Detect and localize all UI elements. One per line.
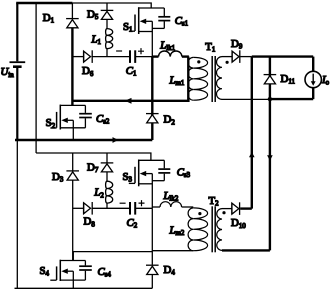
svg-text:S1: S1: [123, 21, 133, 34]
transformer T2 core: [212, 206, 215, 252]
transformer T1 secondary winding: [216, 57, 222, 100]
node dot T1 secondary polarity: [226, 61, 229, 64]
capacitor Cs4: [79, 261, 92, 281]
svg-text:D7: D7: [87, 161, 99, 174]
capacitor C2: [130, 202, 135, 215]
diode D5: [101, 3, 114, 19]
wire output bottom thick: [270, 98, 313, 100]
wire bottom rail 2: [15, 287, 153, 289]
transistor S4 (MOSFET): [50, 252, 85, 289]
source Uin battery: [10, 3, 26, 140]
diode D10: [232, 202, 240, 215]
wire output return bottom thick: [222, 249, 270, 251]
diode D11 column thick: [269, 57, 271, 251]
wire top rail thick from Uin to D1: [16, 2, 72, 4]
wire output left column thick with D10 return: [251, 57, 253, 209]
wire C1 to node A: [135, 56, 152, 58]
transistor S2 (MOSFET): [50, 105, 85, 140]
svg-text:D2: D2: [164, 114, 176, 127]
wire output top thick: [252, 55, 313, 57]
svg-text:Llk1: Llk1: [159, 39, 175, 52]
capacitor Cs2: [79, 105, 92, 127]
label C1 plus sign: [138, 48, 144, 54]
wire C2 to node B: [135, 207, 152, 209]
diode D1: [66, 3, 79, 28]
svg-text:Io: Io: [321, 74, 330, 87]
svg-text:T1: T1: [205, 41, 216, 54]
svg-text:Uin: Uin: [1, 66, 15, 79]
inductor L1: [106, 19, 113, 56]
arrow down on D11 column: [267, 155, 273, 161]
diode D9: [232, 50, 240, 63]
svg-text:C2: C2: [127, 217, 138, 230]
svg-text:D6: D6: [82, 65, 94, 78]
transformer T1 core: [212, 56, 215, 102]
diode D8: [84, 202, 93, 215]
wire D8 to C2: [92, 207, 129, 209]
svg-text:Lm2: Lm2: [169, 224, 185, 237]
svg-text:Cs2: Cs2: [96, 113, 110, 126]
svg-text:D5: D5: [87, 9, 99, 22]
diode D3: [66, 153, 79, 180]
wire D6 to C1: [92, 56, 129, 58]
svg-text:Cs4: Cs4: [98, 266, 112, 279]
svg-text:S2: S2: [46, 117, 56, 130]
wire top rail thin from D1 to S1 drain corner: [72, 3, 151, 8]
wire T2 secondary top to D10: [222, 208, 232, 210]
label C2 minus sign: [120, 202, 126, 204]
svg-text:D1: D1: [43, 12, 55, 25]
transformer T2 primary winding: [188, 208, 208, 251]
wire T1 secondary bottom: [222, 98, 270, 100]
diode D11: [264, 75, 277, 84]
node junction dot output: [268, 97, 272, 101]
arrow up on output left column: [249, 152, 255, 157]
wire S3 source down to node B: [151, 174, 153, 209]
transformer T1 primary winding: [188, 57, 208, 100]
node D4 column: [151, 208, 153, 264]
diode D7: [101, 153, 114, 172]
arrow left on primary-bottom wire: [125, 98, 132, 104]
arrow right on bottom rail: [113, 137, 119, 143]
capacitor C1: [130, 50, 135, 63]
transistor S3 (MOSFET): [129, 160, 165, 187]
svg-text:T2: T2: [209, 195, 220, 208]
wire phase-2 rail: [36, 153, 151, 160]
svg-text:Cs3: Cs3: [177, 167, 191, 180]
diode D2: [146, 114, 159, 123]
svg-text:Lm1: Lm1: [169, 75, 185, 88]
svg-text:Cs1: Cs1: [175, 15, 189, 28]
inductor L2: [106, 172, 113, 208]
svg-text:L2: L2: [93, 187, 104, 200]
transistor S1 (MOSFET): [129, 7, 165, 34]
svg-text:D3: D3: [52, 171, 64, 184]
wire T2 primary bottom: [152, 250, 193, 252]
svg-text:C1: C1: [126, 65, 137, 78]
wire middle row: D1 column to D6: [72, 56, 83, 58]
transformer T2 secondary winding: [217, 209, 222, 251]
wire thick primary-bottom horizontal: [72, 100, 189, 102]
label C1 minus sign: [116, 50, 122, 52]
wire D10 to output column thick: [240, 207, 252, 209]
inductor Llk2 on wire: [152, 202, 193, 207]
diode D6: [84, 50, 93, 63]
diode D4: [146, 265, 159, 288]
wire Uin return column lower: [16, 140, 18, 288]
source Io current source: [305, 57, 321, 100]
wire D3 down to S4 drain: [72, 180, 74, 260]
capacitor Cs3: [152, 160, 170, 180]
wire input feed column x=36 to phase-2 rail: [35, 3, 37, 153]
wire middle row 2: D3 column to D8: [73, 207, 84, 209]
wire secondary top to D9: [222, 56, 232, 58]
inductor Llk1 on thick wire: [152, 51, 189, 57]
wire D9 to output corner: [240, 56, 251, 58]
node dot T2 secondary polarity: [222, 211, 225, 214]
node dot T2 primary polarity: [198, 212, 201, 215]
svg-text:D11: D11: [281, 73, 296, 86]
label C2 plus sign: [139, 200, 145, 206]
wire D1 to S2 drain thick: [71, 28, 73, 106]
node D2 column thick (through D2): [151, 57, 153, 140]
svg-text:L1: L1: [91, 34, 102, 47]
svg-text:Llk2: Llk2: [163, 190, 179, 203]
svg-text:D8: D8: [84, 216, 96, 229]
transformer T1 primary thick bar (Lm1 path): [187, 57, 189, 101]
svg-text:D10: D10: [231, 217, 246, 230]
svg-text:D4: D4: [164, 264, 176, 277]
svg-text:S4: S4: [40, 265, 50, 278]
node dot T1 primary polarity: [197, 60, 200, 63]
wire S4 drain row: [73, 251, 152, 253]
capacitor Cs1: [152, 8, 170, 28]
svg-text:S3: S3: [123, 171, 133, 184]
wire thick bottom rail 1: [15, 139, 152, 141]
wire S1 source down to node A: [151, 21, 153, 56]
svg-text:D9: D9: [231, 38, 243, 51]
